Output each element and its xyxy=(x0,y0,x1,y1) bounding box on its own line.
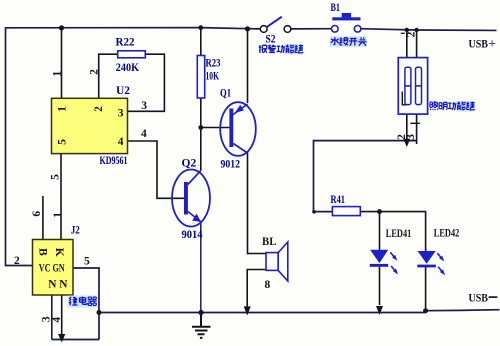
wire: LED41 cathode lead down to bottom rail xyxy=(379,267,381,305)
IC outside pin labels xyxy=(31,69,147,218)
lighting switch pin ticks bottom xyxy=(396,123,420,140)
wire: relay pin6 stub xyxy=(42,196,44,240)
button B1 xyxy=(331,2,361,32)
lighting switch pin ticks top xyxy=(401,31,418,37)
transistor Q1 9012 xyxy=(220,87,256,170)
svg-text:B1: B1 xyxy=(331,2,341,14)
relay J2 xyxy=(33,225,80,296)
svg-text:BL: BL xyxy=(262,236,277,248)
svg-text:3: 3 xyxy=(118,107,124,119)
wire: lighting switch bottom leads xyxy=(407,114,417,144)
switch S2 xyxy=(260,17,291,46)
wire: top rail middle segment (S2 to B1) xyxy=(291,28,332,30)
wire: left border down to relay pin2 xyxy=(6,27,33,265)
svg-text:R41: R41 xyxy=(331,194,346,206)
svg-text:S2: S2 xyxy=(266,33,276,45)
wire: relay pin3 down xyxy=(51,295,53,340)
label 照明功能键 (lighting key) xyxy=(430,101,475,112)
label 继电器 (relay) xyxy=(68,296,98,308)
svg-text:N N: N N xyxy=(48,278,68,290)
resistor R23 xyxy=(197,56,220,99)
transistor Q2 9014 xyxy=(172,158,210,242)
wire: Q1 collector down to speaker top terminal xyxy=(248,153,267,254)
wire: relay bottom horizontal xyxy=(52,339,99,341)
wire: main bottom rail xyxy=(99,312,426,314)
svg-text:5: 5 xyxy=(57,139,69,145)
svg-text:8: 8 xyxy=(265,279,271,291)
wire: relay pin4 down (arrow at end) xyxy=(61,295,63,334)
svg-text:LED41: LED41 xyxy=(386,228,412,240)
svg-text:4: 4 xyxy=(118,136,124,148)
wire-end arrows xyxy=(58,139,410,343)
wire: relay pin5 right then down to bottom rail xyxy=(73,268,99,340)
svg-text:2: 2 xyxy=(14,255,20,267)
svg-text:KD9561: KD9561 xyxy=(100,155,128,167)
wire: IC pin1 vertical from top rail xyxy=(61,28,63,99)
relay outside pin labels xyxy=(14,255,90,323)
svg-text:+: + xyxy=(488,36,496,51)
resistor R22 xyxy=(116,36,146,74)
svg-text:5: 5 xyxy=(84,256,90,268)
svg-text:Q1: Q1 xyxy=(220,87,231,99)
svg-text:10K: 10K xyxy=(206,71,220,83)
svg-text:2: 2 xyxy=(93,106,105,112)
wire: IC pin4 to Q2 base xyxy=(128,141,185,198)
wire: Q1 emitter vertical up to top rail xyxy=(247,29,249,103)
wire: lighting switch to R41 branch xyxy=(314,141,417,212)
svg-text:R23: R23 xyxy=(206,57,221,69)
wire: Q1 base from junction xyxy=(201,127,230,129)
wire: R23 bottom to Q1-base junction down to Q2 collector xyxy=(200,98,202,171)
svg-text:4: 4 xyxy=(141,128,147,140)
node USB+ xyxy=(469,36,497,51)
wire: LED42 cathode lead down to bottom rail xyxy=(425,267,427,311)
svg-text:9012: 9012 xyxy=(221,159,241,171)
svg-text:K: K xyxy=(53,248,65,257)
label 报警功能键 (S2 alarm key) xyxy=(259,44,304,55)
wire: bottom rail right stub to USB- xyxy=(426,310,500,311)
svg-text:2: 2 xyxy=(405,31,417,37)
wire: R23 top vertical xyxy=(200,28,202,56)
svg-text:9014: 9014 xyxy=(182,229,203,241)
ground xyxy=(192,313,211,338)
svg-text:USB: USB xyxy=(469,39,489,51)
wire: top rail left segment xyxy=(6,28,261,29)
svg-text:VC GN: VC GN xyxy=(39,263,65,275)
svg-text:J2: J2 xyxy=(71,225,80,237)
LED41 xyxy=(370,228,412,275)
wire: top rail right segment (B1 to right edge) xyxy=(361,29,497,31)
wire: R22 right lead to IC pin3 xyxy=(128,54,165,111)
svg-text:USB: USB xyxy=(469,293,489,305)
label 水银开关 (B1 mercury switch) xyxy=(330,36,368,47)
svg-text:6: 6 xyxy=(31,211,43,217)
svg-text:R22: R22 xyxy=(116,36,135,48)
LED42 xyxy=(417,227,459,275)
svg-text:LED42: LED42 xyxy=(434,227,460,239)
svg-text:U2: U2 xyxy=(116,85,130,97)
wire: speaker bottom terminal down to bottom rail xyxy=(247,270,266,307)
wire: IC pin5 down to relay pin1 xyxy=(60,154,62,240)
svg-text:2: 2 xyxy=(88,69,100,75)
wire: LED41 anode lead xyxy=(379,212,381,250)
op IC U2 KD9561 xyxy=(52,85,131,167)
svg-text:1: 1 xyxy=(57,106,69,112)
svg-text:3: 3 xyxy=(141,100,147,112)
svg-text:1: 1 xyxy=(52,71,64,77)
svg-text:B: B xyxy=(36,248,48,256)
node USB- xyxy=(469,293,498,305)
wire: R41 right lead to LED42 corner xyxy=(360,212,425,251)
svg-text:Q2: Q2 xyxy=(182,158,197,170)
resistor R41 xyxy=(331,194,361,216)
wire: lighting switch top leads xyxy=(407,30,417,58)
speaker BL xyxy=(262,236,288,291)
lighting switch block xyxy=(398,58,427,115)
wire: Q2 emitter down to ground junction xyxy=(200,222,202,313)
svg-text:5: 5 xyxy=(49,174,61,180)
svg-text:240K: 240K xyxy=(116,62,139,74)
wire: R22 left lead to IC pin2 xyxy=(99,54,118,98)
svg-text:4: 4 xyxy=(51,317,63,323)
svg-text:1: 1 xyxy=(52,212,64,218)
